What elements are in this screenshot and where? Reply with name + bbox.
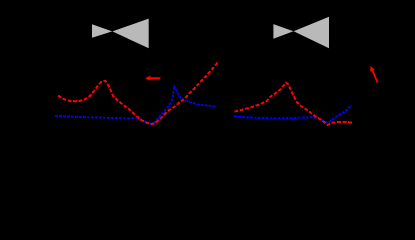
bowtie antenna right : large triangle [294,17,329,48]
blue curve left panel [55,85,216,123]
red arrow left panel (pointing left) [145,76,160,81]
red arrow right panel (pointing up-left) [368,65,380,84]
bowtie antenna left : small triangle [92,24,112,37]
red curve right panel [235,83,354,125]
blue curve right panel [234,105,352,122]
bowtie antenna right : small triangle [273,24,293,39]
red curve left panel [58,62,218,124]
bowtie antenna left : large triangle [112,19,148,49]
